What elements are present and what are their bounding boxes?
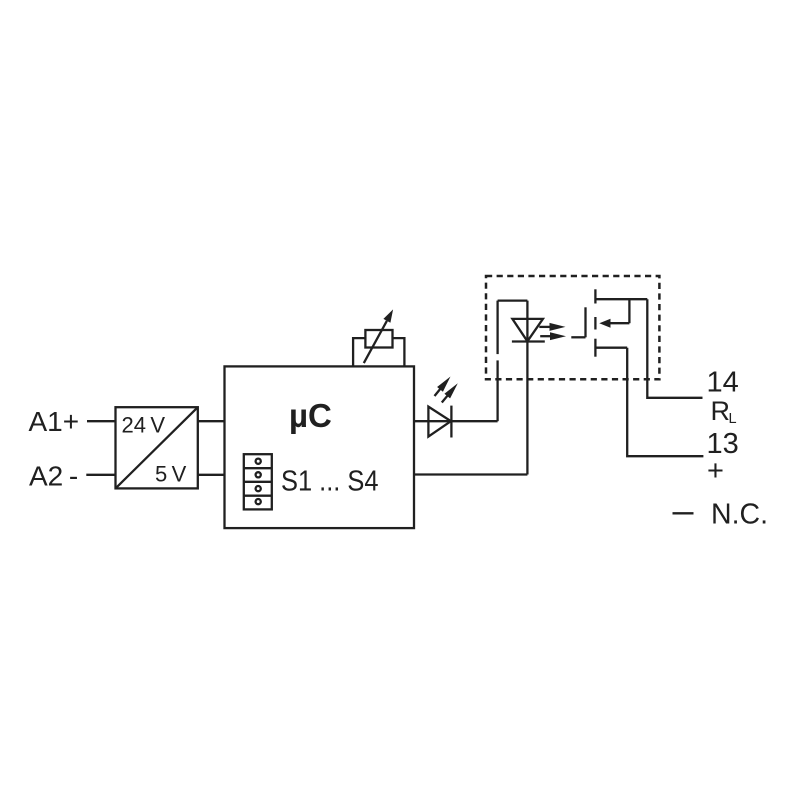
trimmer potentiometer R1 [353,309,404,366]
wire LED anode riser to optocoupler (with gap) [496,301,498,422]
value label 5 V [155,461,187,486]
svg-text:µC: µC [289,397,332,434]
photo-MOSFET Q1 [571,289,647,356]
svg-text:24 V: 24 V [122,412,166,437]
microcontroller U2 box [225,366,415,528]
optocoupler dashed enclosure U3 [486,276,659,379]
svg-text:A2 -: A2 - [29,460,78,491]
light emission arrows [539,323,566,340]
wire converter to microcontroller (0V net) [198,474,225,476]
svg-text:N.C.: N.C. [711,498,768,530]
wire microcontroller lower net to optocoupler LED cathode [414,473,527,475]
wire drain to terminal 14 [647,299,702,398]
wire A2- to converter [86,474,116,476]
label S1 ... S4 [281,466,379,498]
value label 24 V [122,412,166,437]
terminal label A1+ [29,406,80,437]
DIP switch S1-S4 [244,454,272,509]
wire microcontroller to LED D1 [414,420,498,422]
svg-text:L: L [729,411,737,427]
optocoupler LED anode bar [498,299,528,301]
terminal label 13 [707,428,739,460]
LED D1 indicator [428,406,451,438]
DC/DC converter U1 [116,407,198,488]
wire source to terminal 13 [627,348,703,457]
terminal label A2- [29,460,78,491]
wire A1+ to converter [87,420,116,422]
polarity label + [707,455,724,487]
label N.C. [711,498,768,530]
svg-text:14: 14 [707,366,739,398]
svg-text:R: R [711,396,731,426]
terminal N.C. dash [673,512,694,514]
optocoupler LED triangle and cathode bar [512,319,545,342]
load label RL [711,396,737,427]
svg-text:5 V: 5 V [155,461,187,486]
svg-text:S1 ... S4: S1 ... S4 [281,466,379,498]
label µC [289,397,332,434]
optocoupler LED vertical wire [526,301,528,475]
svg-text:+: + [707,455,724,487]
wire converter to microcontroller (24V net) [198,420,225,422]
svg-text:A1+: A1+ [29,406,80,437]
LED D1 emission arrows [435,377,458,403]
terminal label 14 [707,366,739,398]
